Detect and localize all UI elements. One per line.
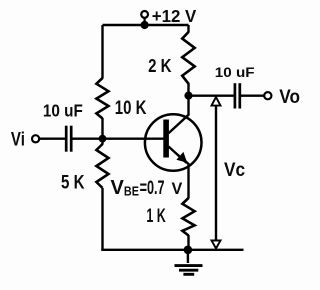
ground — [175, 250, 203, 274]
svg-text:Vo: Vo — [279, 86, 300, 108]
svg-text:BE: BE — [124, 185, 139, 199]
wire: collector node to output capacitor — [189, 94, 235, 96]
input terminal Vi — [32, 135, 39, 142]
junction: supply node dot — [141, 21, 149, 29]
junction: collector node dot — [184, 92, 192, 100]
svg-text:Vc: Vc — [224, 159, 245, 181]
svg-text:Vi: Vi — [11, 129, 25, 151]
svg-text:V: V — [172, 180, 183, 198]
capacitor C2 10uF (output) — [235, 83, 240, 108]
wire: 2K to collector node — [187, 83, 189, 96]
resistor 10K body — [96, 78, 108, 119]
svg-text:10 uF: 10 uF — [43, 101, 83, 121]
transistor Q1 (NPN) — [145, 96, 202, 199]
wire: left branch lower segment — [101, 188, 103, 251]
wire: input capacitor to transistor base — [72, 137, 164, 139]
svg-text:V: V — [111, 177, 125, 199]
wire: right branch top lead — [187, 25, 189, 33]
resistor 5K body — [96, 144, 108, 188]
wire: top supply rail — [103, 24, 189, 26]
svg-text:10 K: 10 K — [115, 97, 147, 119]
wire: bottom rail — [101, 249, 243, 251]
svg-text:2 K: 2 K — [148, 56, 171, 76]
wire: Vi to input capacitor — [39, 137, 65, 139]
svg-text:10 uF: 10 uF — [215, 65, 255, 81]
wire: output capacitor to Vo terminal — [241, 94, 265, 96]
svg-text:=0.7: =0.7 — [140, 178, 165, 199]
label VBE=0.7 V — [111, 177, 183, 199]
wire: left branch between 10K and base node — [101, 118, 103, 145]
junction: ground node dot — [184, 246, 193, 255]
supply terminal +12V — [141, 11, 148, 23]
resistor 2K body — [182, 32, 195, 84]
svg-text:+12 V: +12 V — [152, 6, 197, 26]
svg-text:1 K: 1 K — [146, 206, 166, 227]
wire: 1K to ground node — [187, 235, 189, 250]
junction: base node dot — [99, 135, 107, 143]
Vc measurement arrow — [212, 97, 221, 248]
svg-text:5 K: 5 K — [61, 172, 85, 194]
wire: left branch upper segment — [101, 25, 103, 79]
capacitor C1 10uF (input) — [66, 126, 71, 152]
output terminal Vo — [264, 92, 271, 99]
resistor 1K body — [182, 198, 194, 236]
